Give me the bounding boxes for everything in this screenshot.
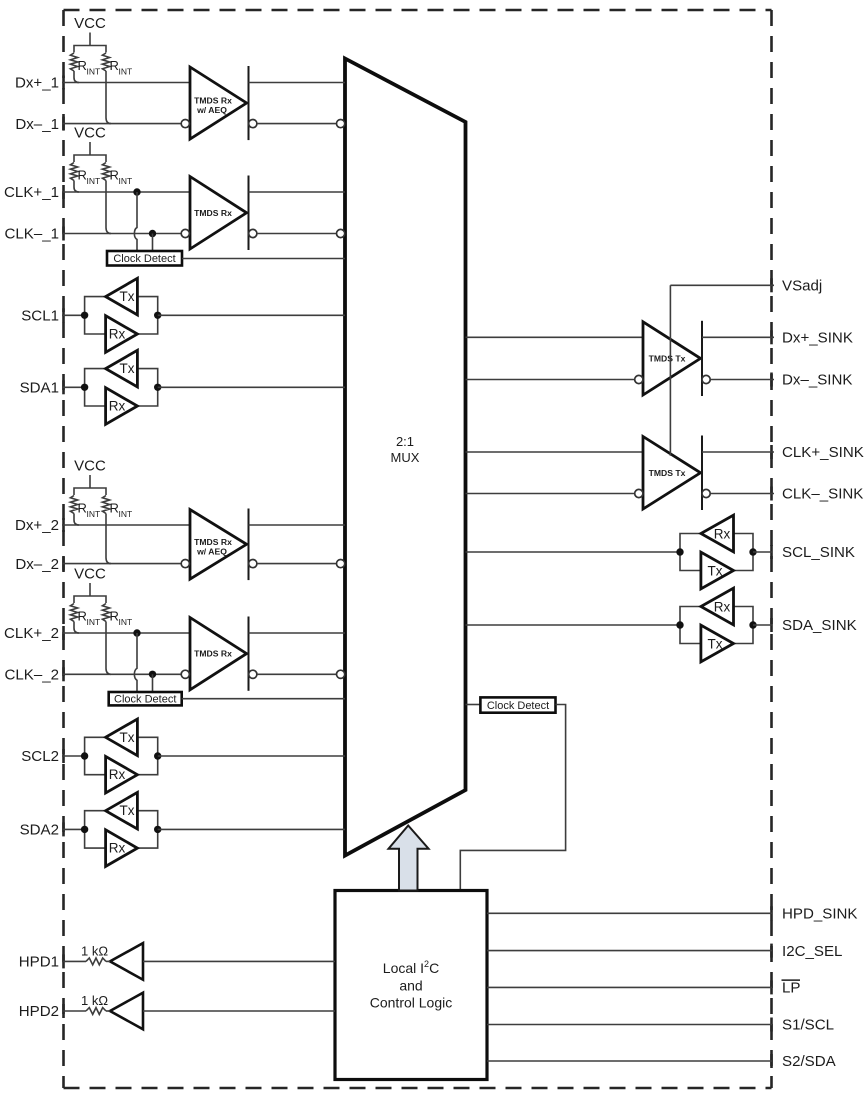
wire MUX to Clock Detect 3 (466, 704, 481, 706)
SCL_SINK Rx/Tx bidirectional buffer pair (676, 515, 756, 589)
TMDS Rx clock amplifier A4 with output bar (181, 617, 257, 691)
wire Dx-_1 to TMDS Rx inverting input (62, 123, 181, 125)
svg-text:HPD_SINK: HPD_SINK (782, 906, 858, 923)
svg-text:I2C_SEL: I2C_SEL (782, 943, 842, 960)
left pin labels (4, 75, 63, 1021)
svg-text:R: R (78, 168, 87, 183)
svg-text:INT: INT (87, 617, 101, 627)
svg-text:VSadj: VSadj (782, 278, 822, 295)
clock detect tap wire from CLK+_2 (hops over CLK-_2) (134, 633, 137, 692)
svg-text:Rx: Rx (109, 399, 126, 414)
svg-text:Rx: Rx (714, 599, 731, 614)
svg-text:Tx: Tx (120, 730, 135, 745)
wire SCL2 to MUX (158, 755, 345, 757)
junction dot on CLK-_1 (149, 230, 156, 237)
TMDS Tx driver B2 with output bar (635, 436, 711, 511)
svg-text:Tx: Tx (708, 563, 723, 578)
svg-text:1 kΩ: 1 kΩ (81, 993, 108, 1008)
wire TMDS Rx A2 complement output to MUX (257, 233, 336, 235)
TMDS Rx w/ AEQ amplifier A1 with output bar (181, 66, 257, 140)
Clock Detect box 3 (480, 697, 555, 712)
wire SDA2 from pin (62, 828, 85, 830)
svg-text:CLK–_1: CLK–_1 (4, 226, 59, 243)
svg-text:VCC: VCC (74, 15, 106, 32)
svg-text:w/ AEQ: w/ AEQ (196, 546, 227, 556)
wire CLK+_2 to TMDS Rx input (62, 632, 190, 634)
svg-text:MUX: MUX (391, 450, 420, 465)
SCL1 Tx/Rx bidirectional buffer pair (81, 278, 161, 352)
svg-text:R: R (78, 501, 87, 516)
svg-text:S1/SCL: S1/SCL (782, 1017, 834, 1034)
wire control logic to S1/SCL pin (487, 1024, 772, 1026)
svg-text:INT: INT (87, 176, 101, 186)
MUX input bubble CLK-_2 (337, 670, 345, 678)
wire Clock Detect 3 to control logic (460, 705, 565, 891)
svg-text:R: R (110, 501, 119, 516)
svg-text:INT: INT (119, 67, 133, 77)
svg-text:CLK+_1: CLK+_1 (4, 184, 59, 201)
wire MUX to TMDS Tx B1 input - (466, 379, 635, 381)
svg-text:Control Logic: Control Logic (370, 995, 453, 1011)
SDA1 Tx/Rx bidirectional buffer pair (81, 350, 161, 424)
svg-text:SDA1: SDA1 (20, 380, 59, 397)
wire Clock Detect 1 output to MUX (182, 258, 345, 260)
svg-text:INT: INT (119, 176, 133, 186)
svg-text:SCL_SINK: SCL_SINK (782, 544, 855, 561)
wire Dx+_2 to TMDS Rx input (62, 524, 190, 526)
svg-text:Dx–_1: Dx–_1 (15, 116, 59, 133)
wire control logic to HPD_SINK pin (487, 912, 772, 914)
pull-up network VCC / RINT RINT for Dx_2 pair (70, 458, 132, 564)
svg-text:Rx: Rx (109, 841, 126, 856)
wire SCL1 from pin (62, 314, 85, 316)
svg-text:Dx+_SINK: Dx+_SINK (782, 330, 853, 347)
svg-text:Tx: Tx (120, 289, 135, 304)
svg-text:Clock Detect: Clock Detect (114, 694, 176, 706)
clock detect tap wire from CLK+_1 (hops over CLK-_1) (134, 192, 137, 251)
resistor 1 kOhm on HPD2 (62, 993, 108, 1014)
wire MUX to SCL_SINK pair (466, 551, 681, 553)
TMDS Rx w/ AEQ amplifier A3 with output bar (181, 509, 257, 581)
wire CLK-_2 to TMDS Rx inverting input (62, 673, 181, 675)
wire MUX to TMDS Tx B2 input + (466, 451, 644, 453)
svg-text:Dx–_SINK: Dx–_SINK (782, 372, 852, 389)
svg-text:TMDS Rx: TMDS Rx (194, 208, 232, 218)
outer dashed boundary of device (64, 10, 772, 1088)
wire Dx+_1 to TMDS Rx input (62, 82, 190, 84)
svg-text:INT: INT (87, 67, 101, 77)
vertical VSadj bias wire into TMDS Tx drivers (669, 285, 671, 455)
wire Dx-_2 to TMDS Rx inverting input (62, 563, 181, 565)
svg-text:Rx: Rx (714, 526, 731, 541)
svg-text:1 kΩ: 1 kΩ (81, 943, 108, 958)
wire SCL1 to MUX (158, 314, 345, 316)
svg-text:SDA2: SDA2 (20, 822, 59, 839)
svg-text:TMDS Rx: TMDS Rx (194, 96, 232, 106)
svg-text:R: R (110, 168, 119, 183)
svg-text:TMDS Rx: TMDS Rx (194, 649, 232, 659)
svg-text:LP: LP (782, 980, 800, 997)
2:1 MUX block U1 (345, 59, 466, 856)
svg-text:Local I2C: Local I2C (383, 959, 439, 976)
wire TMDS Tx B2 output + to CLK+_SINK (702, 451, 774, 453)
svg-text:CLK–_2: CLK–_2 (4, 667, 59, 684)
wire CLK-_1 to TMDS Rx inverting input (62, 233, 181, 235)
pull-up network VCC / RINT RINT for CLK_1 pair (70, 125, 132, 234)
MUX select block arrow from control logic (389, 826, 429, 891)
wire TMDS Rx A3 true output to MUX (249, 524, 346, 526)
svg-text:CLK–_SINK: CLK–_SINK (782, 486, 863, 503)
svg-text:HPD2: HPD2 (19, 1003, 59, 1020)
svg-text:Dx–_2: Dx–_2 (15, 556, 59, 573)
wire TMDS Rx A4 complement output to MUX (257, 673, 336, 675)
svg-text:Tx: Tx (120, 361, 135, 376)
svg-text:HPD1: HPD1 (19, 954, 59, 971)
junction dot on CLK-_2 (149, 671, 156, 678)
wire TMDS Tx B1 output - to Dx-_SINK (710, 379, 774, 381)
svg-text:Tx: Tx (708, 636, 723, 651)
wire TMDS Rx A2 true output to MUX (249, 191, 346, 193)
pull-up network VCC / RINT RINT for CLK_2 pair (70, 566, 132, 675)
svg-text:w/ AEQ: w/ AEQ (196, 105, 227, 115)
wire TMDS Rx A4 true output to MUX (249, 632, 346, 634)
pull-up network VCC / RINT RINT for Dx_1 pair (70, 15, 132, 124)
SCL2 Tx/Rx bidirectional buffer pair (81, 719, 161, 793)
wire MUX to SDA_SINK pair (466, 624, 681, 626)
wire SCL2 from pin (62, 755, 85, 757)
resistor 1 kOhm on HPD1 (62, 943, 108, 964)
junction dot on CLK+_1 (133, 188, 140, 195)
svg-text:SCL2: SCL2 (21, 748, 59, 765)
svg-text:S2/SDA: S2/SDA (782, 1053, 837, 1070)
svg-text:INT: INT (119, 617, 133, 627)
wire SDA1 to MUX (158, 386, 345, 388)
svg-text:SDA_SINK: SDA_SINK (782, 617, 857, 634)
clock detect tap wire from CLK-_2 (152, 674, 154, 692)
wire TMDS Rx A1 complement output to MUX (257, 123, 336, 125)
wire CLK+_1 to TMDS Rx input (62, 191, 190, 193)
svg-text:CLK+_2: CLK+_2 (4, 625, 59, 642)
wire SDA1 from pin (62, 386, 85, 388)
wire MUX to TMDS Tx B2 input - (466, 493, 635, 495)
wire control logic to LP pin (487, 986, 772, 988)
MUX input bubble Dx-_1 (337, 120, 345, 128)
svg-text:Clock Detect: Clock Detect (113, 253, 175, 265)
buffer triangle on HPD2 (points left) (106, 993, 335, 1030)
svg-text:R: R (78, 58, 87, 73)
SDA2 Tx/Rx bidirectional buffer pair (81, 792, 161, 866)
svg-text:TMDS Tx: TMDS Tx (649, 468, 686, 478)
wire TMDS Rx A3 complement output to MUX (257, 563, 336, 565)
clock detect tap wire from CLK-_1 (152, 234, 154, 252)
wire control logic to I2C_SEL pin (487, 950, 772, 952)
MUX input bubble CLK-_1 (337, 229, 345, 237)
svg-text:CLK+_SINK: CLK+_SINK (782, 444, 864, 461)
junction dot on CLK+_2 (133, 629, 140, 636)
svg-text:Rx: Rx (109, 327, 126, 342)
svg-text:SCL1: SCL1 (21, 308, 59, 325)
svg-text:INT: INT (87, 509, 101, 519)
svg-text:Rx: Rx (109, 767, 126, 782)
Local I2C and Control Logic block U2 (335, 891, 487, 1080)
svg-text:TMDS Rx: TMDS Rx (194, 537, 232, 547)
wire SCL_SINK pair to pin (753, 551, 772, 553)
svg-text:and: and (399, 978, 422, 994)
wire Clock Detect 2 output to MUX (182, 698, 345, 700)
svg-text:VCC: VCC (74, 125, 106, 142)
right pin labels (772, 278, 864, 1071)
TMDS Tx driver B1 with output bar (635, 321, 711, 396)
SDA_SINK Rx/Tx bidirectional buffer pair (676, 588, 756, 662)
wire TMDS Tx B1 output + to Dx+_SINK (702, 336, 774, 338)
svg-text:VCC: VCC (74, 458, 106, 475)
svg-text:Dx+_1: Dx+_1 (15, 75, 59, 92)
buffer triangle on HPD1 (points left) (106, 943, 335, 980)
TMDS Rx clock amplifier A2 with output bar (181, 176, 257, 251)
svg-text:Tx: Tx (120, 803, 135, 818)
svg-text:R: R (110, 609, 119, 624)
wire VSadj pin to TMDS Tx bias (670, 284, 774, 286)
wire TMDS Rx A1 true output to MUX (249, 82, 346, 84)
wire SDA2 to MUX (158, 828, 345, 830)
svg-text:R: R (110, 58, 119, 73)
svg-text:R: R (78, 609, 87, 624)
svg-text:VCC: VCC (74, 566, 106, 583)
svg-text:INT: INT (119, 509, 133, 519)
MUX input bubble Dx-_2 (337, 560, 345, 568)
svg-text:TMDS Tx: TMDS Tx (649, 353, 686, 363)
wire control logic to S2/SDA pin (487, 1060, 772, 1062)
svg-text:Dx+_2: Dx+_2 (15, 517, 59, 534)
wire TMDS Tx B2 output - to CLK-_SINK (710, 493, 774, 495)
Clock Detect box 1 (107, 251, 182, 266)
svg-text:Clock Detect: Clock Detect (487, 700, 549, 712)
svg-text:2:1: 2:1 (396, 434, 414, 449)
Clock Detect box 2 (109, 692, 182, 706)
wire SDA_SINK pair to pin (753, 624, 772, 626)
wire MUX to TMDS Tx B1 input + (466, 336, 644, 338)
